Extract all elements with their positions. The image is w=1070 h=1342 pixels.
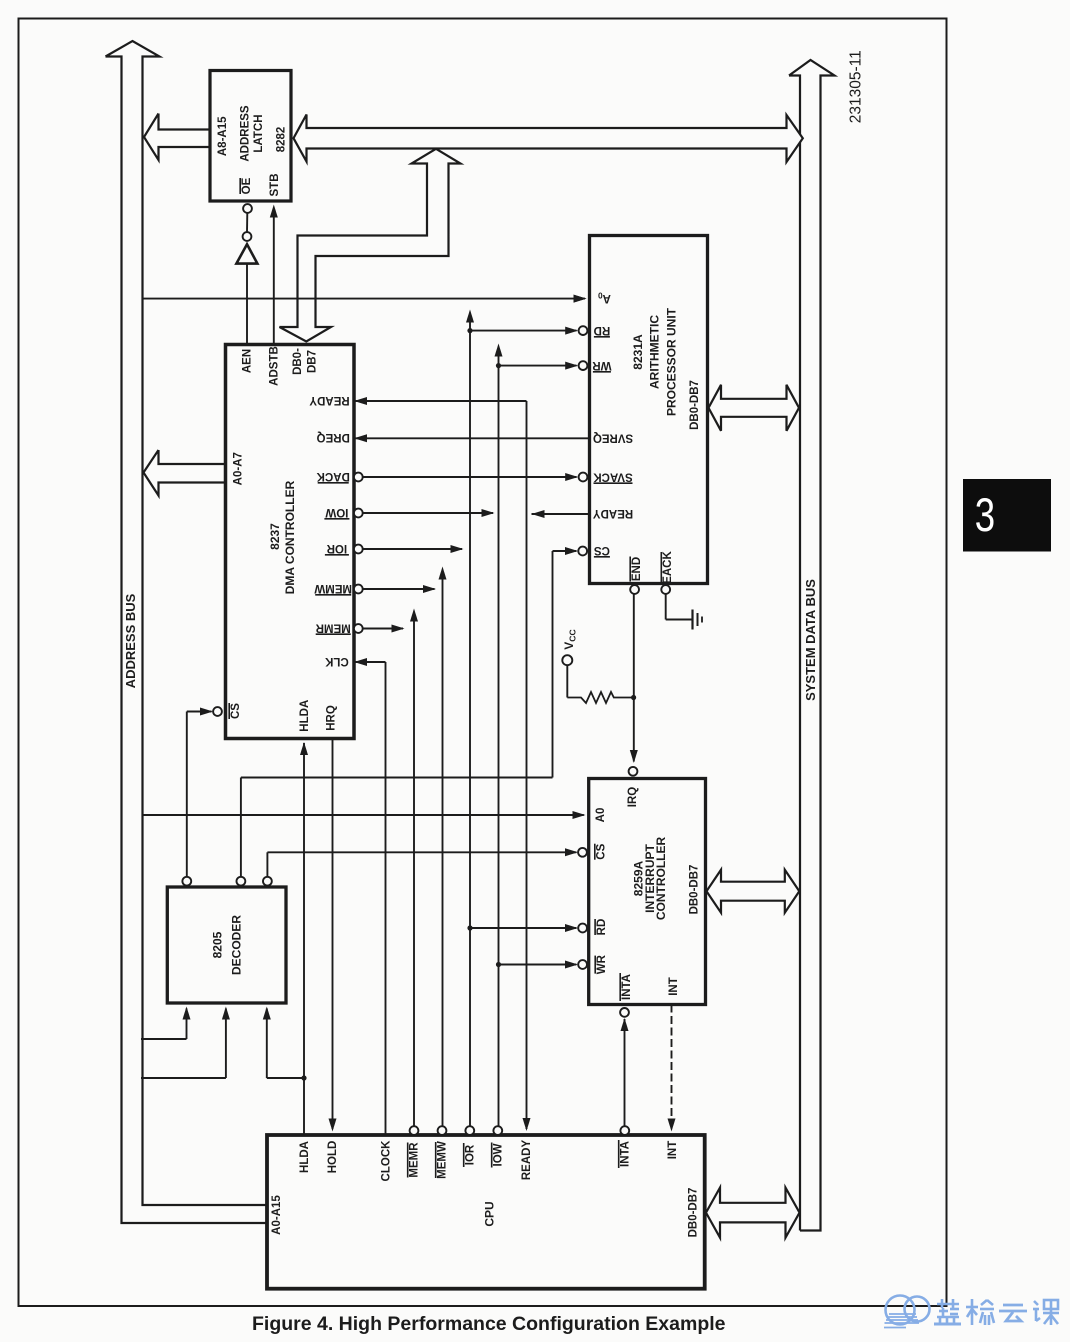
- svg-text:CONTROLLER: CONTROLLER: [654, 837, 668, 921]
- svg-text:DB0-DB7: DB0-DB7: [689, 380, 701, 430]
- svg-text:STB: STB: [269, 174, 281, 197]
- svg-text:WR: WR: [592, 359, 612, 371]
- svg-text:AEN: AEN: [242, 349, 254, 373]
- svg-text:A0-A7: A0-A7: [232, 452, 244, 485]
- svg-text:IRQ: IRQ: [627, 787, 639, 808]
- svg-text:DECODER: DECODER: [229, 915, 243, 975]
- svg-text:A8-A15: A8-A15: [217, 116, 229, 156]
- svg-text:INT: INT: [667, 1141, 679, 1160]
- svg-text:DB0-DB7: DB0-DB7: [688, 1188, 700, 1238]
- svg-text:SVREQ: SVREQ: [593, 432, 633, 444]
- svg-text:CLK: CLK: [324, 655, 348, 667]
- svg-text:IOR: IOR: [465, 1144, 477, 1165]
- svg-text:READY: READY: [309, 394, 350, 406]
- svg-text:RD: RD: [596, 919, 608, 936]
- svg-text:8282: 8282: [276, 127, 288, 153]
- svg-text:ADDRESS: ADDRESS: [239, 105, 251, 162]
- svg-text:SYSTEM DATA BUS: SYSTEM DATA BUS: [803, 579, 818, 701]
- svg-text:END: END: [631, 557, 643, 581]
- svg-text:8231A: 8231A: [631, 334, 645, 370]
- svg-text:CPU: CPU: [482, 1201, 496, 1226]
- svg-text:DB0-DB7: DB0-DB7: [688, 865, 700, 915]
- svg-text:LATCH: LATCH: [253, 114, 265, 152]
- svg-text:EACK: EACK: [662, 551, 674, 584]
- svg-text:INTA: INTA: [620, 1141, 632, 1167]
- svg-text:HLDA: HLDA: [299, 1141, 311, 1173]
- svg-text:231305-11: 231305-11: [847, 50, 864, 123]
- svg-text:CS: CS: [230, 703, 242, 719]
- svg-text:IOW: IOW: [325, 506, 348, 518]
- svg-text:ADSTB: ADSTB: [269, 346, 281, 386]
- svg-text:8237: 8237: [268, 523, 282, 550]
- svg-text:DACK: DACK: [316, 470, 350, 482]
- svg-text:IOW: IOW: [493, 1143, 505, 1166]
- svg-text:MEMW: MEMW: [437, 1141, 449, 1179]
- svg-text:SVACK: SVACK: [593, 470, 633, 482]
- svg-text:CS: CS: [594, 544, 610, 556]
- svg-text:MEMW: MEMW: [314, 582, 352, 594]
- svg-text:OE: OE: [241, 177, 253, 194]
- svg-text:INTA: INTA: [621, 974, 633, 1000]
- svg-text:WR: WR: [596, 954, 608, 974]
- svg-text:ARITHMETIC: ARITHMETIC: [647, 315, 661, 389]
- svg-text:DMA CONTROLLER: DMA CONTROLLER: [283, 480, 297, 594]
- svg-text:PROCESSOR UNIT: PROCESSOR UNIT: [664, 307, 678, 416]
- svg-text:A0: A0: [595, 808, 607, 823]
- svg-text:Figure 4. High Performance Con: Figure 4. High Performance Configuration…: [252, 1313, 726, 1335]
- svg-text:MEMR: MEMR: [409, 1142, 421, 1178]
- svg-text:IOR: IOR: [326, 542, 347, 554]
- svg-text:DREQ: DREQ: [317, 431, 350, 443]
- svg-text:RD: RD: [594, 324, 611, 336]
- svg-text:MEMR: MEMR: [315, 621, 351, 633]
- svg-text:INT: INT: [668, 977, 680, 996]
- svg-text:8205: 8205: [211, 931, 225, 958]
- svg-text:HOLD: HOLD: [327, 1141, 339, 1174]
- svg-text:DB7: DB7: [307, 350, 319, 373]
- svg-text:READY: READY: [593, 507, 634, 519]
- svg-text:CS: CS: [596, 843, 608, 859]
- svg-text:HRQ: HRQ: [326, 705, 338, 731]
- svg-text:HLDA: HLDA: [299, 700, 311, 732]
- svg-text:A0-A15: A0-A15: [271, 1195, 283, 1235]
- svg-text:CLOCK: CLOCK: [381, 1140, 393, 1182]
- svg-text:ADDRESS BUS: ADDRESS BUS: [123, 593, 138, 688]
- svg-text:READY: READY: [521, 1140, 533, 1181]
- svg-text:DB0-: DB0-: [292, 348, 304, 375]
- svg-text:3: 3: [975, 489, 995, 541]
